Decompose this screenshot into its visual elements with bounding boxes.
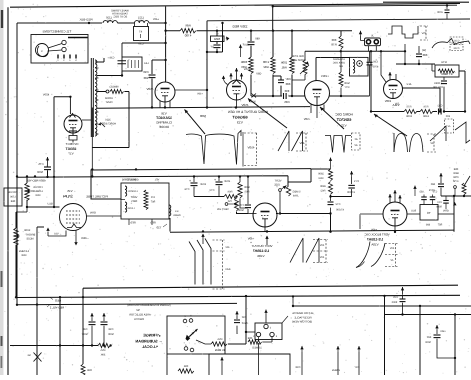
svg-text:450V: 450V (241, 103, 248, 107)
resistor R75 100K (404, 110, 417, 114)
svg-text:NE: NE (27, 354, 31, 357)
tube V10B cathode to bus (264, 227, 266, 232)
tube V12B plate lead to lock box (316, 58, 350, 81)
wire boost line y107.5 (97, 107, 310, 109)
svg-text:L206: L206 (10, 196, 16, 199)
wire y64 line (396, 63, 435, 65)
svg-text:R57: R57 (437, 224, 442, 227)
wire HV line y97 (54, 96, 70, 98)
T11 winding pictorial (36, 44, 49, 57)
arrow on x454 vertical (453, 202, 456, 205)
capacitor C70 pair (421, 196, 427, 198)
svg-text:RECEPTACLE: RECEPTACLE (294, 316, 311, 319)
wire pin arrow above V13 (240, 50, 242, 57)
svg-text:17LP4: 17LP4 (63, 195, 73, 199)
capacitor C82 100 (438, 109, 440, 115)
svg-text:6.8 MEG: 6.8 MEG (19, 250, 29, 253)
wire pot to coil-bottom loop (92, 92, 129, 148)
wire boost bus y176.5 (17, 176, 288, 186)
tube V12B 6SN7GT horiz osc (305, 81, 330, 106)
svg-text:C87: C87 (285, 77, 291, 81)
capacitor C32 .25UF (236, 316, 238, 319)
V13 top cap mark (233, 80, 241, 84)
svg-text:HORIZ OUTPUT & HV GEN: HORIZ OUTPUT & HV GEN (227, 110, 268, 114)
svg-text:330K: 330K (241, 60, 248, 64)
svg-text:(SHOWN IN SUBURBAN POSITION): (SHOWN IN SUBURBAN POSITION) (127, 304, 170, 307)
svg-text:100K: 100K (24, 229, 30, 232)
svg-text:T11 CONNECTIONS: T11 CONNECTIONS (43, 30, 72, 34)
svg-text:+: + (189, 179, 191, 183)
waveform horiz output spike 2 (206, 131, 242, 165)
switch contacts top (183, 319, 187, 323)
svg-text:680: 680 (255, 38, 260, 41)
waveform osc spikes (325, 136, 351, 153)
svg-text:(.0039: (.0039 (434, 82, 442, 85)
svg-text:BLU: BLU (411, 210, 416, 213)
capacitor C72 47000 (330, 197, 332, 202)
box deflection yoke T10 (121, 183, 169, 219)
wire bus A drop at x83 (82, 288, 84, 297)
svg-text:VERT OUTPUT: VERT OUTPUT (251, 244, 272, 248)
svg-text:HORIZ: HORIZ (105, 97, 113, 100)
tube V16 12AX4GT damping diode (155, 82, 175, 102)
waveform vert ramp pair (290, 238, 319, 263)
wire y196.5 cathode line (194, 196, 224, 198)
wire bus B+ y169.4 (91, 169, 311, 170)
svg-text:GRN: GRN (443, 210, 449, 213)
svg-text:680: 680 (422, 53, 427, 57)
resistor R67 120 yoke damper (144, 190, 148, 210)
tube V13 6BG6GT horiz output (227, 80, 247, 100)
capacitor C71 47000 (331, 196, 352, 198)
svg-text:RED-BLK: RED-BLK (79, 18, 92, 22)
wire x37 vertical lower (36, 305, 38, 375)
wire y51.3 line (305, 50, 405, 52)
tube V10A 1/2 12BH7 vert block osc (383, 202, 407, 226)
wire AFC bus (371, 111, 465, 113)
resistor R81 100K (291, 31, 293, 57)
tube V17 1B3GT HV rectifier (64, 115, 82, 133)
svg-text:C75: C75 (239, 204, 244, 207)
svg-text:R76: R76 (423, 106, 428, 109)
svg-text:5000: 5000 (37, 171, 43, 174)
svg-text:V16: V16 (161, 112, 167, 116)
switch contacts bottom (184, 347, 188, 351)
wire V17 filament taps to T10 (82, 119, 91, 121)
svg-text:R68: R68 (21, 254, 26, 257)
svg-text:+40V: +40V (371, 229, 377, 232)
svg-text:-28V: -28V (256, 73, 262, 76)
svg-text:15 MEG: 15 MEG (252, 347, 262, 350)
svg-text:RED: RED (130, 222, 135, 225)
capacitor C38 5000 (103, 318, 105, 321)
svg-text:5000: 5000 (436, 206, 442, 209)
svg-text:C74: C74 (184, 188, 189, 191)
svg-text:V10B: V10B (257, 254, 264, 258)
svg-text:NESS: NESS (26, 238, 33, 241)
svg-text:4700: 4700 (437, 11, 443, 14)
wire between coils (118, 22, 135, 24)
socket J5 with two contacts (365, 38, 381, 46)
svg-text:R38: R38 (87, 369, 92, 372)
capacitor C74 10UF (193, 177, 195, 183)
V17 top cap mark (70, 114, 76, 118)
svg-text:6SN7GT: 6SN7GT (336, 118, 351, 122)
wire yoke to vert bus (169, 218, 171, 232)
resistor R82 4700 (272, 31, 274, 57)
wire y196 line right edge (441, 195, 471, 197)
svg-text:40V: 40V (319, 256, 324, 259)
border left line (7, 7, 9, 375)
svg-text:(W): (W) (422, 49, 426, 52)
svg-text:C75: C75 (38, 163, 43, 166)
wire bus REG y297 (17, 295, 460, 297)
wire transformer bottom to boost bus (91, 137, 93, 177)
box bottom sub chassis (209, 354, 290, 375)
svg-text:C123: C123 (453, 47, 459, 50)
svg-text:R83: R83 (241, 65, 247, 69)
wire stub 2 MEG (337, 352, 339, 375)
capacitor C85 4700 (369, 51, 371, 62)
wire y345 line (10, 345, 98, 347)
wire x60 vertical (59, 297, 61, 375)
svg-text:R67: R67 (150, 201, 155, 204)
svg-text:V17: V17 (68, 152, 74, 156)
wire x293 stub (292, 296, 294, 306)
svg-text:4V: 4V (390, 259, 393, 262)
wire B+ 135V top bus (272, 5, 457, 6)
svg-text:AREA SELECTOR: AREA SELECTOR (129, 314, 151, 317)
potentiometer R66 brightness (16, 211, 27, 213)
tube V11A half 6SN7 discharge (384, 80, 403, 99)
resistor R86 4700 (180, 29, 196, 33)
resistor R83 330K (249, 57, 253, 74)
waveform pointer arrow to vert bus (202, 234, 204, 244)
wire y52 link (207, 51, 223, 53)
coil L220 (103, 21, 117, 23)
svg-text:C38: C38 (109, 57, 114, 60)
wire yoke bottom stubs (129, 219, 152, 225)
svg-text:← SUBURBAN: ← SUBURBAN (135, 339, 162, 344)
svg-text:R86: R86 (185, 24, 191, 28)
wire pulse measure leads (404, 44, 406, 64)
svg-text:FOCUS: FOCUS (8, 191, 17, 194)
svg-text:LOWER: LOWER (33, 190, 43, 193)
svg-text:C86: C86 (284, 100, 290, 104)
svg-text:L223A: L223A (127, 207, 134, 210)
coil L24 box (122, 57, 142, 71)
wire transformer bottom to boost line (91, 108, 93, 138)
svg-text:R65: R65 (244, 191, 249, 194)
wire x420 vertical (419, 306, 421, 375)
capacitor C75 vert 5000 (247, 209, 249, 214)
capacitor C83 680 (439, 173, 442, 176)
capacitor C88 5000 (250, 31, 252, 41)
svg-text:6800: 6800 (244, 186, 250, 189)
svg-text:R58: R58 (247, 337, 252, 340)
svg-text:1000: 1000 (138, 20, 144, 23)
measure bracket sawtooth (445, 119, 454, 133)
svg-text:J4 (FOR REMOTE: J4 (FOR REMOTE (292, 312, 314, 315)
wire boost bus riser x311 (288, 169, 331, 182)
svg-text:C39: C39 (138, 42, 144, 46)
resistor R65 6800 (239, 177, 241, 183)
svg-text:↖LOCAL: ↖LOCAL (141, 345, 158, 349)
wire V10A plate to T9 (407, 213, 420, 215)
svg-text:450V: 450V (146, 87, 153, 91)
wire CRT left pin to focus (27, 206, 60, 208)
resistor R76 100K (420, 110, 433, 114)
svg-text:+: + (214, 178, 216, 182)
wire y23 continue to x166 (149, 22, 166, 24)
svg-text:R64: R64 (293, 195, 298, 198)
tube V11A grid lead (381, 51, 386, 82)
svg-text:R78: R78 (331, 43, 337, 47)
svg-text:HORIZ SIZE: HORIZ SIZE (102, 123, 116, 126)
svg-text:BLU: BLU (47, 203, 52, 206)
svg-text:3116: 3116 (105, 119, 111, 122)
svg-text:R62: R62 (320, 190, 325, 193)
svg-text:40V: 40V (225, 246, 230, 249)
svg-text:450V RED-YEL: 450V RED-YEL (26, 179, 46, 183)
svg-text:600: 600 (331, 38, 336, 42)
waveform pointer from AFC bus (374, 114, 407, 136)
svg-text:5 MEG: 5 MEG (292, 191, 300, 194)
box area selector switch (167, 316, 225, 354)
wire 135V REG line y30.7 (166, 30, 352, 32)
svg-text:+40V: +40V (153, 18, 159, 21)
svg-text:47: 47 (139, 30, 143, 34)
svg-text:+40V: +40V (197, 93, 203, 96)
transformer T10 winding (95, 60, 97, 136)
wire T9 right to x454 (438, 213, 454, 215)
svg-text:C90: C90 (143, 70, 149, 74)
svg-text:FOCUS: FOCUS (33, 186, 42, 189)
measure bracket 450V (242, 132, 244, 167)
svg-text:DIODE: DIODE (159, 125, 169, 129)
resistor R55 39K (98, 343, 110, 347)
svg-text:+135V: +135V (321, 74, 329, 78)
waveform vert yoke sawtooth blades (189, 242, 195, 285)
waveform sawtooth small right (430, 126, 446, 141)
tube V12B bottom pins (311, 105, 324, 119)
capacitor C90 180 (151, 60, 153, 74)
svg-text:39K: 39K (100, 354, 105, 357)
svg-text:(C)UF: (C)UF (242, 44, 249, 47)
svg-text:R98: R98 (453, 168, 458, 171)
svg-text:HORIZ HOLD: HORIZ HOLD (290, 59, 306, 62)
svg-text:4700: 4700 (372, 66, 378, 69)
svg-text:C82: C82 (437, 105, 442, 108)
resistor R77 5600 (340, 51, 342, 72)
svg-text:40V: 40V (299, 141, 304, 145)
transformer T10 horiz output core (90, 58, 92, 137)
coil L223A vert defl (125, 186, 127, 196)
svg-text:+50V: +50V (304, 117, 311, 121)
svg-text:GRN: GRN (90, 212, 96, 215)
svg-text:↙FRINGE: ↙FRINGE (143, 334, 161, 338)
resistor R38 at x83 (81, 364, 85, 376)
measure bracket 25V (420, 26, 428, 40)
svg-text:47,000: 47,000 (346, 191, 354, 194)
arrow terminal in box (221, 362, 223, 375)
wire R56 to bus drop x246 (228, 296, 246, 344)
capacitor C38 at L24 box (118, 61, 127, 64)
svg-text:2 MEG: 2 MEG (332, 369, 340, 372)
svg-text:20UF: 20UF (223, 180, 230, 183)
box L25 horiz lock (350, 57, 369, 76)
svg-text:DEFL: DEFL (130, 200, 137, 203)
tube V16 base pins (160, 101, 170, 108)
svg-text:R63: R63 (318, 177, 323, 180)
svg-text:CENT: CENT (105, 101, 112, 104)
wire J5 leads down (369, 46, 377, 52)
wire x272 vertical from top bus (272, 6, 274, 30)
waveform pointer arrow to boost line (185, 110, 206, 135)
tube V10A grid left (360, 214, 383, 229)
wire x207 frame drop (206, 21, 208, 108)
T11 terminal ticks (57, 55, 59, 59)
page edge mark middle left (1, 271, 3, 287)
resistor R58 15 MEG (248, 340, 262, 344)
svg-text:4700: 4700 (184, 34, 191, 38)
svg-text:L24: L24 (144, 62, 149, 65)
svg-text:120: 120 (150, 196, 155, 199)
tube V11A top pins (390, 72, 396, 80)
wire floating arrow x415 (414, 190, 416, 196)
svg-text:R74: R74 (441, 60, 447, 64)
svg-text:V10A: V10A (371, 243, 378, 247)
svg-text:C40: C40 (82, 328, 87, 331)
svg-text:6BG6GT: 6BG6GT (232, 116, 248, 120)
switch wiper arms (190, 329, 198, 337)
capacitor C44 5000 bottom right (436, 330, 438, 334)
tube V10A cathode (394, 226, 396, 232)
svg-text:15 MEG: 15 MEG (215, 348, 225, 352)
svg-text:C72: C72 (335, 203, 340, 206)
box T11 connections (31, 35, 88, 64)
svg-text:VERT: VERT (274, 180, 281, 183)
svg-text:5000: 5000 (425, 341, 431, 344)
svg-text:680: 680 (285, 82, 290, 86)
wire bus y306 (293, 305, 471, 307)
wire transformer top tap (95, 58, 104, 62)
wire bus y314.5 (385, 314, 471, 316)
svg-text:GRN-YEL: GRN-YEL (127, 179, 139, 182)
svg-text:R77: R77 (344, 86, 349, 89)
svg-text:40V: 40V (389, 247, 394, 250)
page edge mark lower left (1, 336, 3, 346)
svg-text:UF: UF (210, 46, 214, 49)
tube V15 17LP4 picture tube socket (60, 204, 87, 231)
wire bus 250V y288 (83, 285, 458, 288)
resistor R56 15 MEG (211, 342, 227, 346)
wire bus1 corner down to yoke (91, 169, 121, 199)
border top second line right (383, 1, 469, 3)
svg-text:3300: 3300 (320, 185, 326, 188)
capacitor C75 5000 left (46, 157, 49, 160)
capacitor C86 390 (283, 93, 285, 99)
svg-text:C28: C28 (295, 366, 300, 369)
svg-text:HV RECT: HV RECT (65, 142, 78, 146)
svg-text:R56: R56 (217, 338, 222, 341)
wire x83 vertical (82, 297, 84, 364)
svg-text:5600: 5600 (344, 82, 350, 85)
svg-text:R69: R69 (35, 194, 40, 197)
wire CRT grid GRN to yoke (87, 215, 122, 217)
svg-text:20V: 20V (394, 103, 399, 106)
lamp NE-2 spark gap (34, 353, 42, 362)
wire wiper to R56 (196, 340, 211, 344)
svg-text:680: 680 (106, 20, 111, 23)
svg-text:4V: 4V (354, 144, 357, 147)
svg-text:470K: 470K (453, 176, 459, 179)
tube V10B 1/2 12BH7 vert output (253, 203, 277, 227)
svg-text:AF2: AF2 (406, 83, 411, 86)
tube V13 top cap leads (231, 68, 242, 80)
svg-text:V13: V13 (237, 121, 243, 125)
svg-text:5000: 5000 (391, 301, 397, 304)
measure bracket 40V pair (313, 240, 328, 263)
waveform sawtooth ramp pair (278, 131, 303, 151)
node x17 top corner (16, 23, 18, 305)
wire long vertical x222 (222, 23, 224, 52)
socket J4 receptacle (255, 323, 282, 340)
svg-text:C10: C10 (437, 201, 442, 204)
wire RED-YEL 2 line y304.6 (17, 303, 237, 304)
tube V13 cathode to boost line (236, 100, 238, 108)
capacitor C10 5000 below y196 (445, 196, 447, 200)
svg-text:R68: R68 (10, 200, 15, 203)
svg-text:OHMS: OHMS (173, 214, 181, 217)
svg-text:10UF: 10UF (199, 183, 206, 186)
wire C90 top line (152, 59, 166, 61)
svg-text:4V: 4V (447, 125, 450, 128)
svg-text:100K: 100K (406, 115, 412, 118)
svg-text:BRIGHT-: BRIGHT- (25, 234, 36, 237)
wire J4 left to x246 riser (246, 331, 255, 333)
box focus control at border (4, 188, 22, 206)
wire V16 plate line to x207 (175, 89, 207, 91)
page edge mark upper left (1, 10, 3, 28)
svg-text:AF: AF (354, 138, 358, 141)
wire stub C28 (301, 352, 303, 375)
svg-text:C38: C38 (108, 328, 113, 331)
svg-text:C29: C29 (393, 296, 398, 299)
svg-text:47,000: 47,000 (335, 209, 343, 212)
wire V10B grid lead (248, 213, 257, 215)
wire top interior line (207, 19, 470, 21)
svg-text:130K: 130K (423, 115, 429, 118)
measure bracket 400V (213, 240, 225, 289)
svg-text:SC-87 OSC.: SC-87 OSC. (113, 16, 128, 19)
svg-text:40V: 40V (319, 244, 324, 247)
capacitor C87 680 (278, 79, 284, 81)
potentiometer R64A vert lin (235, 198, 239, 211)
svg-text:680: 680 (430, 183, 435, 186)
svg-text:.033: .033 (419, 191, 424, 194)
wire x454 vertical right lower (453, 196, 455, 232)
waveform sawtooth far right (455, 122, 470, 143)
svg-text:S2: S2 (136, 308, 140, 312)
border top line (10, 3, 460, 7)
svg-text:.25UF: .25UF (241, 322, 248, 325)
wire CRT pin down arrow (75, 231, 77, 243)
wire grid line y96 (251, 95, 282, 97)
potentiometer R64 vert size (286, 186, 290, 196)
svg-text:3300: 3300 (318, 173, 324, 176)
svg-text:450V: 450V (247, 146, 254, 150)
